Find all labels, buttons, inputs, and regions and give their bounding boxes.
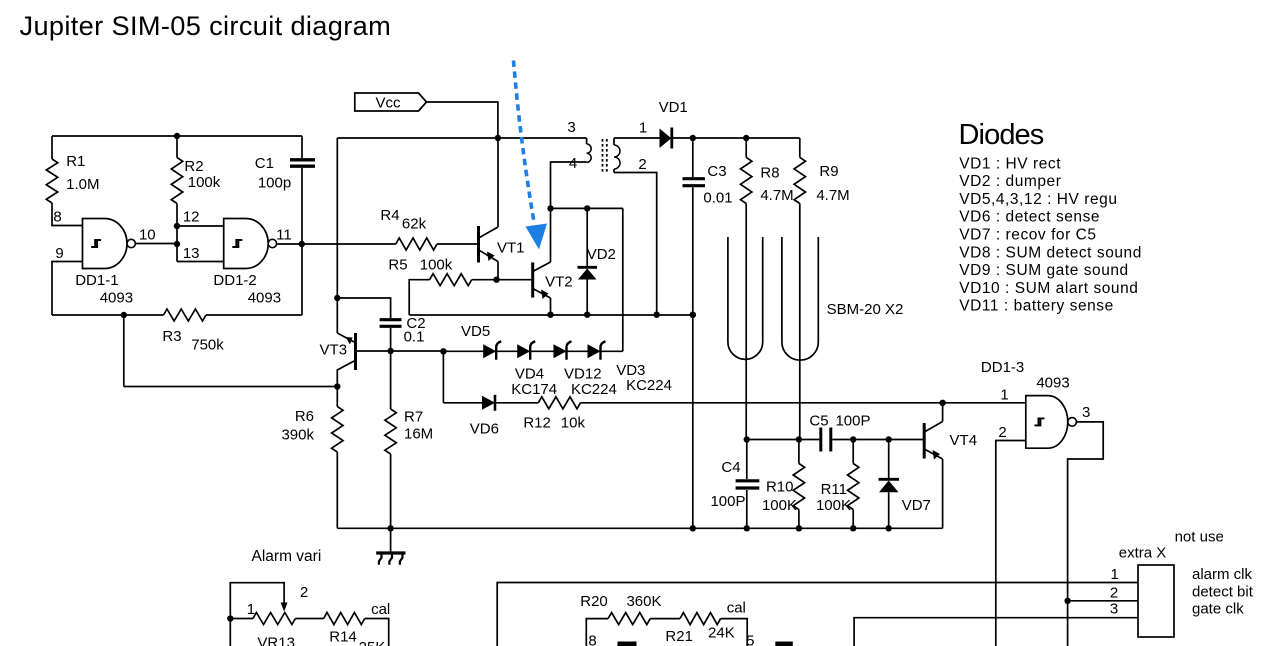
resistor R3	[52, 314, 164, 316]
wire pin1 to VD1	[614, 137, 660, 139]
svg-text:10: 10	[139, 227, 156, 244]
svg-text:alarm clk: alarm clk	[1192, 566, 1253, 583]
svg-text:10k: 10k	[561, 415, 586, 432]
transformer secondary	[613, 138, 615, 145]
node C3 mid rail	[690, 312, 696, 318]
wire pin2 down	[614, 173, 657, 315]
diode VD4	[517, 344, 530, 358]
node pin12/13 junction	[174, 223, 180, 229]
blue pointer arrow	[514, 61, 535, 223]
diode VD6	[482, 396, 495, 410]
svg-text:DD1-3: DD1-3	[981, 359, 1024, 376]
svg-text:Jupiter SIM-05 circuit diagram: Jupiter SIM-05 circuit diagram	[20, 10, 392, 41]
wire mid rail	[409, 314, 693, 316]
wire C1 to rail R3	[301, 244, 303, 315]
svg-text:C5: C5	[809, 413, 828, 430]
svg-text:16M: 16M	[404, 426, 433, 443]
resistor R2	[176, 136, 178, 158]
wire conn pin3 gate clk	[854, 618, 1138, 646]
svg-text:SBM-20 X2: SBM-20 X2	[827, 301, 904, 318]
svg-text:R3: R3	[162, 328, 181, 345]
node Vcc junction	[495, 135, 501, 141]
wire detect row	[443, 402, 538, 404]
svg-text:VD7 : recov for C5: VD7 : recov for C5	[959, 227, 1096, 244]
svg-text:0.1: 0.1	[404, 329, 425, 346]
diode VD5	[483, 344, 496, 358]
diode VD12	[554, 344, 567, 358]
svg-text:4: 4	[569, 155, 577, 172]
svg-text:1: 1	[639, 120, 647, 137]
node VT1 emitter R5	[493, 277, 499, 283]
svg-text:4093: 4093	[1036, 375, 1069, 392]
resistor R12	[538, 397, 580, 409]
resistor R1	[51, 136, 53, 159]
svg-text:R7: R7	[404, 409, 423, 426]
svg-text:Diodes: Diodes	[959, 119, 1044, 151]
svg-text:DD1-2: DD1-2	[213, 272, 256, 289]
svg-text:DD1-1: DD1-1	[75, 272, 118, 289]
resistor R21	[650, 618, 680, 620]
svg-text:VD1: VD1	[659, 99, 688, 116]
svg-text:KC174: KC174	[511, 381, 557, 398]
svg-text:5: 5	[746, 633, 754, 646]
svg-text:R6: R6	[295, 408, 314, 425]
diode VD7	[888, 440, 890, 480]
svg-text:24K: 24K	[708, 625, 735, 642]
connector extra X	[1138, 565, 1174, 637]
svg-text:Vcc: Vcc	[375, 95, 401, 112]
diode VD1	[660, 129, 672, 149]
svg-text:1.0M: 1.0M	[66, 176, 99, 193]
svg-text:KC224: KC224	[571, 381, 617, 398]
svg-text:R12: R12	[523, 415, 551, 432]
resistor R9	[799, 138, 801, 157]
transistor VT2	[531, 263, 534, 298]
capacitor C2	[380, 318, 402, 321]
svg-text:2: 2	[300, 584, 308, 601]
svg-text:100K: 100K	[816, 497, 851, 514]
capacitor C1	[301, 136, 303, 158]
wire feedback down	[121, 312, 127, 318]
svg-text:100K: 100K	[762, 497, 797, 514]
svg-text:R8: R8	[760, 165, 779, 182]
svg-text:VT1: VT1	[497, 239, 525, 256]
svg-text:C1: C1	[255, 155, 274, 172]
svg-text:100p: 100p	[258, 175, 291, 192]
svg-text:1: 1	[1111, 566, 1119, 583]
svg-text:360K: 360K	[626, 593, 661, 610]
svg-text:VD9 : SUM gate sound: VD9 : SUM gate sound	[959, 262, 1129, 279]
svg-text:VT2: VT2	[545, 274, 573, 291]
capacitor C3	[692, 138, 694, 177]
diode VD3	[588, 344, 601, 358]
svg-text:2: 2	[638, 156, 646, 173]
svg-text:VD2 : dumper: VD2 : dumper	[959, 173, 1061, 190]
svg-text:VD12: VD12	[564, 366, 602, 383]
svg-text:not use: not use	[1175, 529, 1224, 546]
node chain left	[440, 348, 446, 354]
power flag Vcc	[355, 93, 427, 111]
op-amp DD1-1 nand gate	[83, 219, 128, 269]
pin stub bars	[618, 642, 637, 646]
resistor R7	[390, 351, 392, 409]
node VD1 out	[690, 135, 696, 141]
svg-text:VD5: VD5	[461, 323, 490, 340]
wire left branch down	[336, 138, 338, 333]
wire conn pin2 detect bit	[1068, 600, 1138, 602]
svg-text:R10: R10	[766, 479, 794, 496]
svg-text:4093: 4093	[100, 290, 133, 307]
svg-text:VD1 : HV rect: VD1 : HV rect	[959, 155, 1061, 172]
transformer pin 4 wire	[551, 162, 587, 208]
wire bottom rail	[337, 527, 942, 529]
svg-text:VD6: VD6	[470, 421, 499, 438]
wire pin 13	[177, 261, 224, 263]
transistor VT3 pnp	[354, 333, 357, 370]
svg-text:R4: R4	[380, 207, 399, 224]
svg-text:VT3: VT3	[320, 342, 348, 359]
svg-text:KC224: KC224	[626, 377, 672, 394]
svg-text:VD7: VD7	[902, 497, 931, 514]
wire pin 12	[177, 225, 224, 227]
potentiometer VR13	[230, 583, 284, 619]
svg-text:390k: 390k	[281, 427, 314, 444]
wire emitter row	[124, 386, 337, 388]
svg-text:2: 2	[998, 424, 1006, 441]
geiger tube 1 SBM-20	[728, 237, 763, 359]
svg-text:R21: R21	[665, 628, 693, 645]
svg-text:100k: 100k	[188, 174, 221, 191]
op-amp DD1-3 nand gate	[1026, 396, 1068, 449]
node C2 top branch	[334, 295, 340, 301]
svg-text:VD2: VD2	[587, 246, 616, 263]
wire component row	[747, 439, 820, 441]
svg-text:8: 8	[53, 209, 61, 226]
wire to C2	[337, 298, 390, 318]
resistor R20	[586, 619, 608, 646]
geiger tube 2 SBM-20	[782, 237, 818, 360]
svg-text:12: 12	[183, 209, 200, 226]
node VT4 collector	[939, 400, 945, 406]
svg-text:11: 11	[276, 227, 292, 244]
svg-text:100P: 100P	[835, 413, 870, 430]
svg-text:R11: R11	[821, 481, 847, 498]
svg-text:VD8 : SUM detect sound: VD8 : SUM detect sound	[959, 244, 1142, 261]
wire chain	[443, 350, 622, 352]
svg-text:VD11 : battery sense: VD11 : battery sense	[959, 298, 1114, 315]
svg-text:C3: C3	[707, 163, 726, 180]
svg-text:62k: 62k	[402, 216, 427, 233]
svg-text:R14: R14	[329, 629, 357, 646]
svg-text:3: 3	[567, 119, 575, 136]
wire Vcc rail	[337, 137, 586, 139]
svg-text:detect bit: detect bit	[1192, 584, 1254, 601]
wire R4 to VT1 base	[437, 243, 477, 245]
svg-text:4.7M: 4.7M	[816, 187, 849, 204]
svg-text:C4: C4	[721, 459, 740, 476]
wire top rail left	[52, 135, 302, 137]
svg-text:4.7M: 4.7M	[760, 187, 793, 204]
svg-text:25K: 25K	[359, 639, 386, 646]
node R2 top	[174, 133, 180, 139]
svg-text:R20: R20	[580, 593, 608, 610]
svg-text:0.01: 0.01	[703, 190, 732, 207]
op-amp DD1-2 nand gate	[224, 219, 269, 269]
node bottom rail junctions	[690, 525, 696, 531]
svg-text:13: 13	[183, 245, 200, 262]
resistor R10	[798, 440, 800, 464]
transistor VT1	[477, 226, 480, 263]
svg-text:R5: R5	[388, 257, 407, 274]
capacitor C4	[746, 440, 748, 480]
svg-text:R9: R9	[819, 163, 838, 180]
wire pin9	[52, 262, 83, 316]
svg-text:2: 2	[1110, 585, 1118, 602]
svg-text:750k: 750k	[191, 337, 224, 354]
svg-text:3: 3	[1110, 601, 1118, 618]
wire output 11 to R4	[277, 243, 396, 245]
svg-text:VD5,4,3,12 : HV regu: VD5,4,3,12 : HV regu	[959, 191, 1117, 208]
node R6 top	[334, 383, 340, 389]
wire chain down to detect row	[442, 351, 444, 403]
wire output DD1-3	[1068, 422, 1104, 646]
resistor R8	[745, 138, 747, 157]
node output to connector	[1064, 598, 1070, 604]
wire output DD1-1 to node	[136, 243, 177, 245]
wire pin2	[996, 441, 1026, 646]
svg-text:VD10 : SUM alart sound: VD10 : SUM alart sound	[959, 280, 1138, 297]
transformer core	[602, 139, 604, 172]
svg-text:cal: cal	[371, 601, 390, 618]
resistor R4	[396, 238, 437, 250]
ground	[387, 525, 393, 531]
transistor VT4	[923, 423, 926, 459]
resistor R6	[336, 387, 338, 407]
svg-text:Alarm vari: Alarm vari	[252, 548, 322, 565]
svg-text:100P: 100P	[710, 493, 745, 510]
node C1 bottom on output 11	[299, 241, 305, 247]
svg-text:8: 8	[588, 633, 596, 646]
transformer T1 primary	[586, 138, 588, 144]
wire Vcc to rail	[427, 102, 498, 138]
svg-text:3: 3	[1082, 404, 1090, 421]
svg-text:cal: cal	[727, 600, 746, 617]
diode VD2	[586, 208, 588, 267]
resistor R14	[295, 618, 323, 620]
node VT3 base C2	[387, 348, 393, 354]
svg-text:4093: 4093	[248, 290, 281, 307]
wire conn pin1 alarm clk	[497, 583, 1138, 646]
wire down to diode chain	[622, 208, 624, 351]
resistor R11	[852, 440, 854, 464]
svg-text:VR13: VR13	[257, 635, 295, 646]
svg-text:100k: 100k	[420, 257, 453, 274]
svg-text:1: 1	[1000, 387, 1008, 404]
svg-text:R2: R2	[184, 158, 203, 175]
svg-text:9: 9	[55, 245, 63, 262]
wire R2 bottom to pin13	[176, 226, 178, 262]
svg-text:gate clk: gate clk	[1192, 601, 1244, 618]
wire HV rail	[693, 137, 800, 139]
wire pin4 node	[551, 207, 623, 209]
svg-text:VD4: VD4	[515, 366, 544, 383]
svg-text:1: 1	[247, 601, 255, 618]
svg-text:extra X: extra X	[1119, 545, 1167, 562]
resistor R5	[409, 280, 429, 315]
svg-text:VD6 : detect sense: VD6 : detect sense	[959, 209, 1100, 226]
capacitor C5	[819, 428, 822, 452]
svg-text:R1: R1	[66, 153, 85, 170]
svg-text:VT4: VT4	[950, 432, 978, 449]
